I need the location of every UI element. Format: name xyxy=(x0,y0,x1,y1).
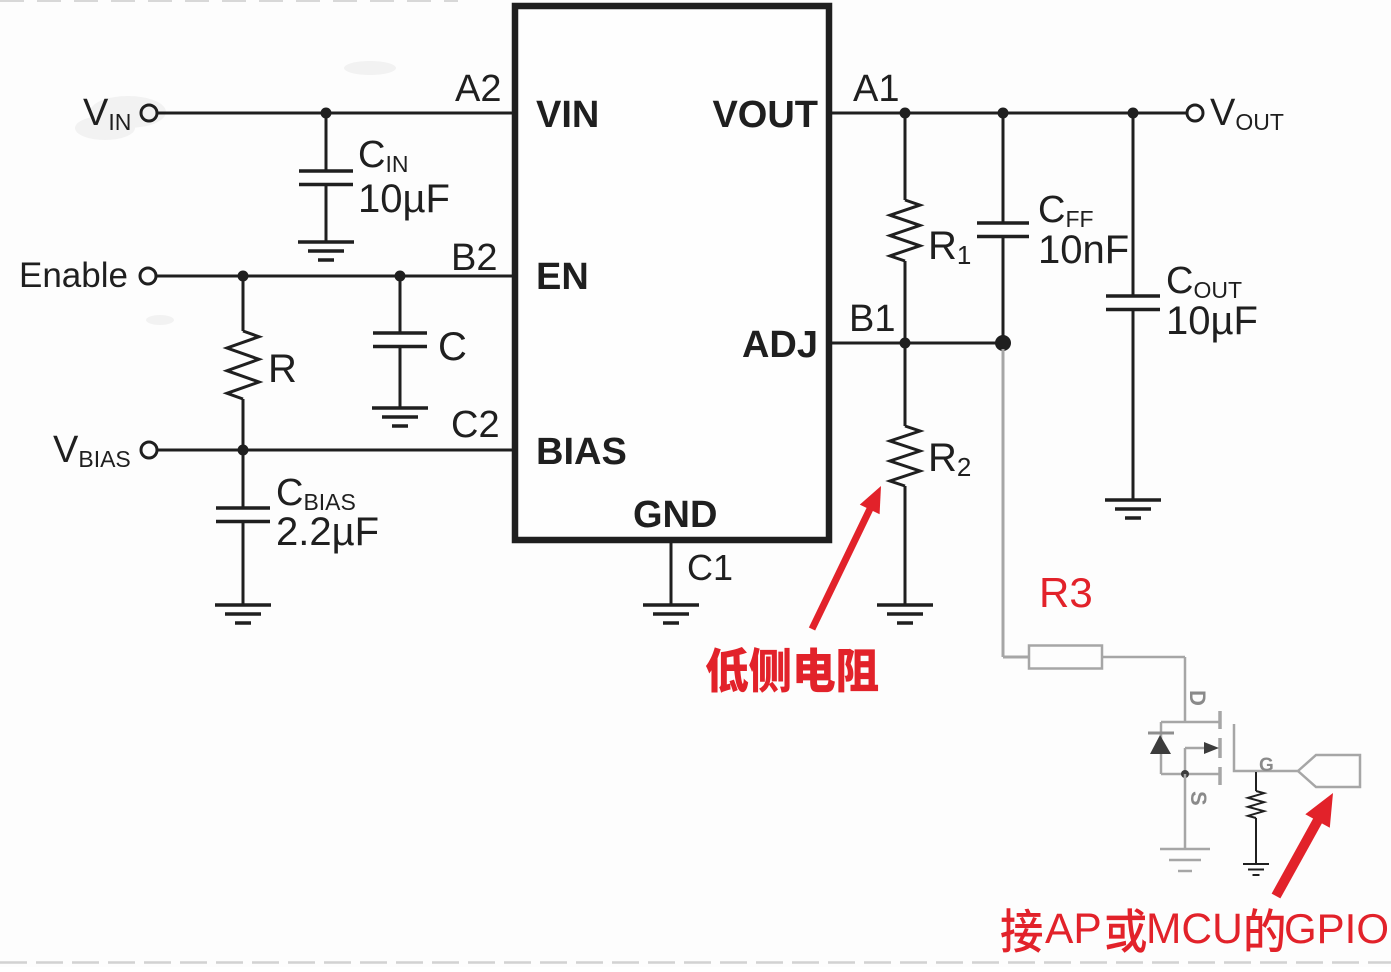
wire R2 bottom lead xyxy=(904,486,907,605)
terminal VOUT xyxy=(1187,105,1203,121)
junction EN/C xyxy=(395,271,406,282)
resistor pulldown xyxy=(1248,791,1264,818)
svg-text:C1: C1 xyxy=(687,547,733,588)
wire CIN bottom lead xyxy=(325,184,328,242)
node ADJ tap xyxy=(995,335,1011,351)
svg-text:BIAS: BIAS xyxy=(536,431,627,473)
junction VOUT/CFF xyxy=(998,108,1009,119)
annotation text low-side resistor xyxy=(706,647,878,693)
wire pulldown bottom lead xyxy=(1255,818,1257,864)
svg-text:VOUT: VOUT xyxy=(712,94,818,136)
capacitor C xyxy=(373,333,427,347)
junction VOUT/COUT xyxy=(1128,108,1139,119)
faint cropped row top xyxy=(0,0,458,2)
Q1 body arrow xyxy=(1185,742,1219,774)
junction Q1 source xyxy=(1181,770,1189,778)
transistor Q1 gate bar xyxy=(1234,724,1298,771)
Q1 drain connection xyxy=(1161,721,1220,724)
annotation arrow to GPIO xyxy=(1276,793,1333,896)
wire drain vertical xyxy=(1184,657,1187,722)
capacitor CBIAS xyxy=(216,508,270,522)
wire C top lead xyxy=(399,276,402,333)
svg-text:2.2µF: 2.2µF xyxy=(276,510,379,554)
svg-text:R: R xyxy=(268,347,297,391)
ground CBIAS xyxy=(215,605,271,623)
wire ADJ tap down (gray) xyxy=(1002,349,1005,657)
wire CFF top lead xyxy=(1002,113,1005,223)
svg-text:A2: A2 xyxy=(455,68,501,110)
svg-text:G: G xyxy=(1259,755,1274,776)
wire ADJ xyxy=(832,342,1003,345)
wire COUT top lead xyxy=(1132,113,1135,296)
ground R2 xyxy=(877,605,933,623)
capacitor COUT xyxy=(1106,296,1160,310)
annotation text connect AP/MCU GPIO xyxy=(1001,905,1389,953)
ground C1 xyxy=(643,605,699,623)
resistor R3 body xyxy=(1029,646,1102,669)
ground C xyxy=(372,408,428,426)
svg-text:10µF: 10µF xyxy=(1166,299,1258,343)
junction VIN/CIN xyxy=(321,108,332,119)
junction VOUT/R1 xyxy=(900,108,911,119)
connector GPIO xyxy=(1298,755,1360,787)
IC U1 body xyxy=(515,6,829,540)
svg-text:Enable: Enable xyxy=(19,256,128,295)
svg-text:R3: R3 xyxy=(1039,569,1093,616)
wire R bottom lead xyxy=(242,399,245,450)
wire R3 to drain xyxy=(1102,656,1185,659)
ground CIN xyxy=(298,242,354,260)
ground Q1 source xyxy=(1160,849,1210,871)
svg-text:B1: B1 xyxy=(849,298,895,340)
capacitor CIN xyxy=(299,171,353,185)
junction Enable/R xyxy=(238,271,249,282)
wire CBIAS bottom lead xyxy=(242,521,245,605)
wire into R3 xyxy=(1003,656,1029,659)
svg-text:GPIO: GPIO xyxy=(1284,905,1389,952)
decorative xyxy=(75,61,396,325)
wire GND pin C1 xyxy=(670,543,673,605)
wire CBIAS top lead xyxy=(242,450,245,508)
wire VOUT xyxy=(832,112,1187,115)
wire VIN to IC xyxy=(157,112,512,115)
Q1 source connection xyxy=(1161,773,1220,776)
svg-text:D: D xyxy=(1185,690,1210,706)
terminal VIN xyxy=(141,105,157,121)
svg-text:10nF: 10nF xyxy=(1038,228,1129,272)
body diode D1 xyxy=(1148,733,1174,754)
svg-text:C: C xyxy=(438,325,467,369)
svg-text:MCU: MCU xyxy=(1146,906,1243,953)
svg-text:10µF: 10µF xyxy=(358,177,450,221)
svg-text:VIN: VIN xyxy=(536,94,599,136)
Q1 body-diode branch xyxy=(1160,722,1163,774)
resistor R1 xyxy=(890,200,920,261)
svg-text:C2: C2 xyxy=(451,404,500,446)
ground COUT xyxy=(1105,500,1161,518)
svg-text:A1: A1 xyxy=(853,68,899,110)
capacitor CFF xyxy=(977,223,1029,237)
svg-text:EN: EN xyxy=(536,256,589,298)
junction VBIAS/CBIAS xyxy=(238,445,249,456)
wire Q1 source to ground xyxy=(1184,774,1187,849)
transistor Q1 channel xyxy=(1218,711,1222,785)
wire COUT bottom lead xyxy=(1132,309,1135,500)
wire R1 bottom lead xyxy=(904,261,907,343)
svg-text:ADJ: ADJ xyxy=(742,324,818,366)
svg-text:S: S xyxy=(1186,791,1211,806)
terminal Enable xyxy=(140,268,156,284)
wire pulldown top lead xyxy=(1255,772,1257,791)
wire R top lead xyxy=(242,276,245,331)
junction ADJ/R2 xyxy=(900,338,911,349)
faint cropped row bottom xyxy=(0,961,1391,964)
svg-text:B2: B2 xyxy=(451,237,497,279)
resistor R2 xyxy=(890,426,920,486)
resistor R xyxy=(227,331,259,399)
wire CFF bottom lead xyxy=(1002,236,1005,343)
ground pulldown xyxy=(1243,864,1269,875)
svg-text:GND: GND xyxy=(633,494,717,536)
terminal VBIAS xyxy=(141,442,157,458)
wire R2 top lead xyxy=(904,343,907,426)
wire Enable to EN pin xyxy=(156,275,512,278)
wire VBIAS to BIAS pin xyxy=(157,449,512,452)
annotation arrow to R2 xyxy=(812,486,881,629)
wire C bottom lead xyxy=(399,346,402,408)
svg-text:AP: AP xyxy=(1045,906,1102,953)
wire R1 top lead xyxy=(904,113,907,200)
wire CIN top lead xyxy=(325,113,328,171)
